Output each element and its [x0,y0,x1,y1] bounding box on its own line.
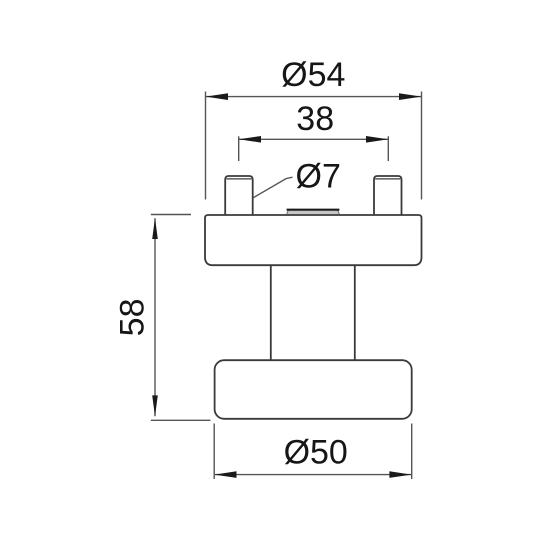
svg-text:Ø50: Ø50 [284,434,348,472]
svg-text:58: 58 [113,298,151,336]
svg-text:Ø7: Ø7 [296,157,341,195]
svg-text:38: 38 [296,100,334,138]
svg-text:Ø54: Ø54 [281,56,345,94]
